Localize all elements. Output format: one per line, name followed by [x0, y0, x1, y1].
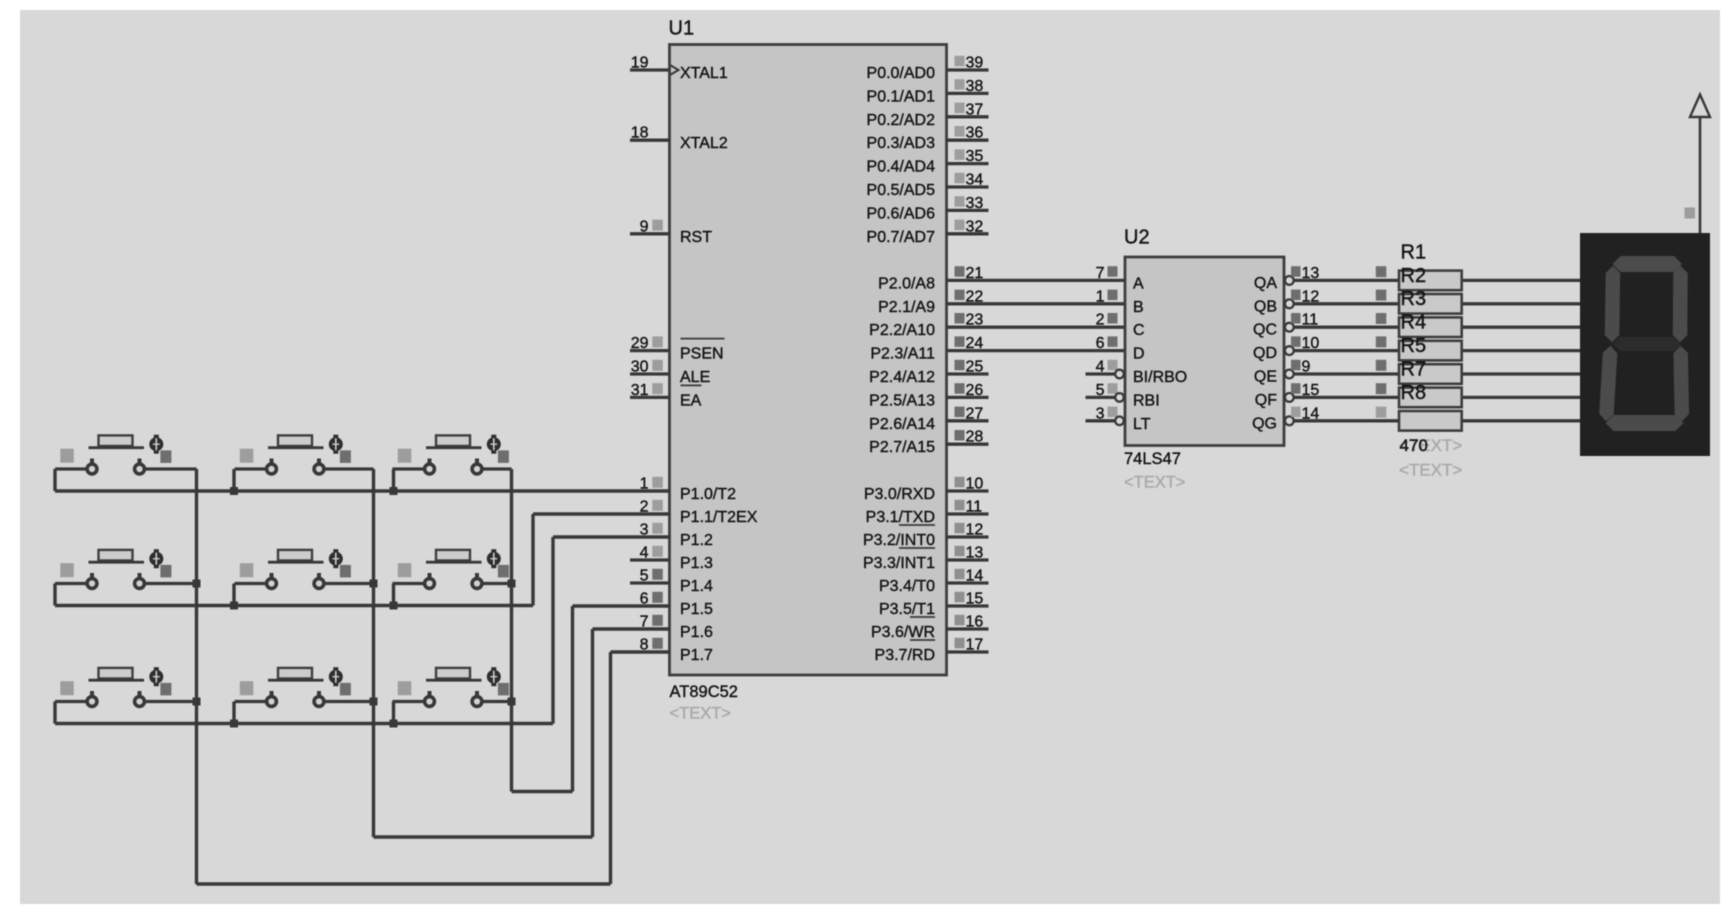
svg-text:35: 35 [966, 148, 984, 165]
svg-text:AT89C52: AT89C52 [670, 683, 738, 701]
svg-text:37: 37 [966, 101, 984, 118]
svg-text:P2.7/A15: P2.7/A15 [869, 439, 935, 456]
svg-text:P2.6/A14: P2.6/A14 [869, 416, 935, 433]
svg-text:14: 14 [1302, 405, 1320, 422]
svg-text:7: 7 [1096, 265, 1105, 282]
svg-text:27: 27 [966, 405, 984, 422]
svg-text:P2.0/A8: P2.0/A8 [878, 275, 935, 292]
svg-text:D: D [1133, 346, 1145, 363]
svg-text:21: 21 [966, 265, 984, 282]
svg-text:QB: QB [1254, 298, 1277, 315]
svg-text:17: 17 [966, 637, 984, 654]
svg-text:P1.0/T2: P1.0/T2 [680, 486, 736, 503]
svg-text:10: 10 [966, 476, 984, 493]
svg-text:15: 15 [966, 591, 984, 608]
svg-text:36: 36 [966, 125, 984, 142]
svg-text:11: 11 [966, 499, 983, 516]
svg-text:P0.5/AD5: P0.5/AD5 [867, 182, 936, 199]
svg-text:18: 18 [631, 125, 649, 142]
svg-text:32: 32 [966, 218, 984, 235]
svg-text:14: 14 [966, 568, 984, 585]
svg-text:P2.5/A13: P2.5/A13 [869, 392, 935, 409]
svg-text:P3.3/INT1: P3.3/INT1 [863, 555, 935, 572]
svg-text:3: 3 [1096, 405, 1105, 422]
svg-text:470: 470 [1400, 436, 1428, 455]
svg-text:XTAL1: XTAL1 [680, 65, 728, 82]
svg-text:13: 13 [966, 545, 984, 562]
svg-text:QC: QC [1253, 322, 1277, 339]
svg-text:P3.5/T1: P3.5/T1 [879, 601, 935, 618]
svg-text:R1: R1 [1401, 241, 1427, 263]
svg-text:9: 9 [640, 218, 649, 235]
svg-text:QE: QE [1254, 369, 1277, 386]
svg-text:P1.1/T2EX: P1.1/T2EX [680, 509, 758, 526]
svg-text:4: 4 [1096, 359, 1105, 376]
svg-text:P1.4: P1.4 [680, 578, 713, 595]
svg-text:12: 12 [1302, 288, 1320, 305]
svg-text:34: 34 [966, 172, 984, 189]
svg-text:R8: R8 [1401, 382, 1427, 404]
svg-text:6: 6 [1096, 335, 1105, 352]
svg-text:P3.2/INT0: P3.2/INT0 [863, 532, 935, 549]
svg-text:P3.0/RXD: P3.0/RXD [864, 486, 935, 503]
svg-text:PSEN: PSEN [680, 346, 724, 363]
svg-text:33: 33 [966, 195, 984, 212]
svg-text:13: 13 [1302, 265, 1320, 282]
svg-text:U1: U1 [669, 18, 695, 40]
svg-text:22: 22 [966, 288, 984, 305]
svg-text:LT: LT [1133, 416, 1151, 433]
svg-text:16: 16 [966, 614, 984, 631]
svg-text:A: A [1133, 275, 1144, 292]
svg-text:P1.3: P1.3 [680, 555, 713, 572]
svg-text:26: 26 [966, 382, 984, 399]
svg-text:P2.4/A12: P2.4/A12 [869, 369, 935, 386]
svg-text:U2: U2 [1124, 227, 1150, 249]
svg-text:29: 29 [631, 335, 649, 352]
svg-text:1: 1 [1096, 288, 1105, 305]
svg-text:P1.6: P1.6 [680, 624, 713, 641]
svg-text:25: 25 [966, 359, 984, 376]
svg-text:B: B [1133, 299, 1144, 316]
svg-text:R2: R2 [1401, 265, 1427, 287]
svg-text:R7: R7 [1401, 358, 1427, 380]
svg-text:38: 38 [966, 78, 984, 95]
svg-text:P1.2: P1.2 [680, 532, 713, 549]
svg-text:31: 31 [631, 382, 649, 399]
svg-text:P1.7: P1.7 [680, 647, 713, 664]
svg-text:<TEXT>: <TEXT> [670, 705, 731, 723]
svg-text:P0.4/AD4: P0.4/AD4 [867, 159, 936, 176]
svg-text:BI/RBO: BI/RBO [1133, 369, 1187, 386]
svg-text:39: 39 [966, 55, 984, 72]
svg-text:C: C [1133, 322, 1145, 339]
svg-text:XTAL2: XTAL2 [680, 135, 728, 152]
svg-text:P3.7/RD: P3.7/RD [875, 647, 935, 664]
svg-text:P0.6/AD6: P0.6/AD6 [867, 205, 936, 222]
svg-text:<TEXT>: <TEXT> [1124, 474, 1185, 492]
svg-text:EA: EA [680, 392, 702, 409]
svg-text:R4: R4 [1401, 312, 1427, 334]
svg-text:P2.3/A11: P2.3/A11 [870, 346, 935, 363]
svg-text:P1.5: P1.5 [680, 601, 713, 618]
svg-text:R3: R3 [1401, 288, 1427, 310]
svg-text:15: 15 [1302, 382, 1320, 399]
svg-text:30: 30 [631, 359, 649, 376]
svg-text:RST: RST [680, 229, 712, 246]
svg-text:2: 2 [1096, 312, 1105, 329]
svg-text:P0.2/AD2: P0.2/AD2 [867, 112, 936, 129]
svg-text:P0.1/AD1: P0.1/AD1 [867, 88, 936, 105]
svg-text:9: 9 [1302, 359, 1311, 376]
svg-text:11: 11 [1302, 312, 1319, 329]
svg-text:28: 28 [966, 429, 984, 446]
svg-text:12: 12 [966, 522, 984, 539]
svg-text:P3.1/TXD: P3.1/TXD [866, 509, 935, 526]
svg-text:19: 19 [631, 55, 649, 72]
svg-text:QG: QG [1252, 415, 1277, 432]
svg-text:P3.6/WR: P3.6/WR [871, 624, 935, 641]
svg-text:ALE: ALE [680, 369, 710, 386]
svg-text:24: 24 [966, 335, 984, 352]
svg-text:QF: QF [1255, 392, 1277, 409]
svg-text:5: 5 [640, 568, 649, 585]
svg-text:5: 5 [1096, 382, 1105, 399]
svg-text:P3.4/T0: P3.4/T0 [879, 578, 935, 595]
svg-text:74LS47: 74LS47 [1124, 450, 1181, 468]
svg-text:4: 4 [640, 545, 649, 562]
svg-text:P0.7/AD7: P0.7/AD7 [867, 229, 936, 246]
svg-text:QD: QD [1253, 345, 1277, 362]
svg-text:P0.3/AD3: P0.3/AD3 [867, 135, 936, 152]
svg-text:RBI: RBI [1133, 392, 1160, 409]
svg-text:P0.0/AD0: P0.0/AD0 [867, 65, 936, 82]
svg-text:P2.2/A10: P2.2/A10 [869, 322, 935, 339]
svg-text:R5: R5 [1401, 335, 1427, 357]
svg-text:10: 10 [1302, 335, 1320, 352]
svg-text:QA: QA [1254, 275, 1277, 292]
svg-text:<TEXT>: <TEXT> [1399, 461, 1462, 480]
svg-text:P2.1/A9: P2.1/A9 [878, 299, 935, 316]
svg-text:23: 23 [966, 312, 984, 329]
